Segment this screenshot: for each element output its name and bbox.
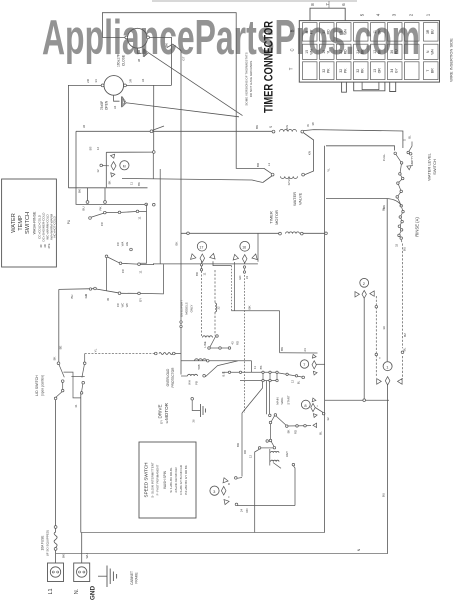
- svg-text:21: 21: [356, 50, 360, 54]
- svg-text:BU: BU: [70, 295, 74, 299]
- svg-text:RD: RD: [236, 341, 240, 345]
- svg-text:S/ 1+BK-BU RD-BL: S/ 1+BK-BU RD-BL: [169, 467, 173, 493]
- timer connector cell grid: [303, 23, 439, 80]
- TH2 terminal flag: [114, 95, 120, 101]
- svg-text:N.: N.: [74, 589, 80, 594]
- wire to water level switch common: [326, 146, 395, 151]
- svg-text:34: 34: [390, 69, 394, 73]
- svg-text:CLOSE: CLOSE: [122, 54, 126, 66]
- svg-text:BS: BS: [89, 147, 93, 151]
- svg-text:16: 16: [242, 245, 246, 249]
- wire left drop feed: [68, 187, 147, 189]
- connector cluster under circle 17: [191, 254, 197, 261]
- timer connector outer box: [299, 21, 439, 83]
- svg-text:12: 12: [291, 380, 295, 384]
- svg-text:36: 36: [82, 125, 86, 129]
- svg-text:S- SLOW INTERMITTENT: S- SLOW INTERMITTENT: [151, 462, 155, 498]
- wire N bus: [81, 532, 325, 534]
- svg-text:BK: BK: [382, 205, 386, 209]
- junction verticals: [262, 374, 264, 380]
- timer connector bottom tab right: [390, 82, 396, 91]
- svg-text:BK: BK: [175, 242, 179, 246]
- splice circle 16: [240, 241, 250, 251]
- wire B cold water feed: [271, 173, 274, 176]
- svg-text:BR: BR: [431, 68, 435, 73]
- svg-text:5: 5: [339, 31, 343, 33]
- svg-text:WF: WF: [125, 303, 129, 308]
- wire N plug stem: [81, 533, 83, 564]
- wire sol rail drop: [251, 361, 253, 373]
- svg-text:32: 32: [395, 244, 399, 248]
- fuse F1: [54, 526, 57, 529]
- wire diagonal to circled3 drop: [242, 381, 263, 413]
- svg-text:M: M: [123, 164, 126, 168]
- wire top page edge: [152, 0, 357, 2]
- svg-text:WH: WH: [431, 48, 435, 54]
- svg-text:32: 32: [356, 69, 360, 73]
- svg-text:BU: BU: [403, 247, 407, 251]
- timer connector bottom tab left: [342, 82, 347, 92]
- svg-text:TEMP: TEMP: [18, 215, 24, 231]
- junction row upper: [222, 371, 277, 373]
- svg-text:HG: HG: [125, 242, 129, 246]
- svg-text:2/S+DK GR RD GR: 2/S+DK GR RD GR: [174, 467, 178, 492]
- timer connector tab top tick: [328, 1, 330, 8]
- svg-text:32: 32: [322, 69, 326, 73]
- wire feeder 160: [159, 169, 161, 264]
- svg-text:BK: BK: [137, 182, 141, 186]
- lid switch pole 2: [82, 365, 85, 378]
- temp switch wafer 1: [89, 217, 92, 220]
- svg-text:BL: BL: [408, 135, 412, 139]
- svg-text:WH: WH: [188, 380, 192, 385]
- svg-text:OPEN: OPEN: [105, 100, 109, 110]
- svg-text:78±5F: 78±5F: [100, 101, 104, 110]
- lid switch pole1 lower: [62, 382, 64, 389]
- svg-text:RD: RD: [344, 49, 348, 54]
- svg-text:RD: RD: [245, 508, 249, 512]
- wire drop from cluster 16: [244, 262, 246, 413]
- svg-text:DO NOT HAVE GROUNDS: DO NOT HAVE GROUNDS: [249, 61, 253, 98]
- svg-text:GY: GY: [160, 420, 164, 424]
- svg-text:BR: BR: [195, 272, 199, 276]
- junction row lower: [240, 380, 277, 382]
- wire horizontal 310: [232, 310, 280, 312]
- wire TH2 left lead to left drop: [68, 85, 101, 187]
- svg-text:MAIN: MAIN: [275, 397, 279, 404]
- svg-text:39: 39: [382, 326, 386, 330]
- svg-text:BU: BU: [82, 206, 86, 210]
- svg-text:PB: PB: [195, 381, 199, 385]
- svg-text:CC: CC: [116, 242, 120, 246]
- svg-text:PR: PR: [310, 29, 314, 34]
- wire timer rail continues to junction: [303, 232, 325, 234]
- svg-text:CABINET: CABINET: [130, 571, 134, 585]
- svg-text:VALVE: VALVE: [298, 193, 303, 206]
- svg-text:YL: YL: [327, 50, 331, 54]
- svg-text:WATER LEVEL: WATER LEVEL: [427, 152, 432, 180]
- thermostat TH1 terminals: [125, 36, 128, 39]
- svg-text:WIRE INSERTION SIDE: WIRE INSERTION SIDE: [449, 38, 454, 82]
- cabinet ground symbol: [106, 566, 108, 588]
- svg-text:GY23: GY23: [287, 177, 291, 185]
- svg-text:WDG: WDG: [280, 397, 284, 405]
- svg-text:YL: YL: [94, 348, 98, 352]
- wire jog under cluster 17: [213, 261, 232, 265]
- motor protector coil: [181, 375, 188, 377]
- drop from wire A to wire B right end: [304, 133, 314, 175]
- svg-text:T: T: [378, 357, 382, 359]
- wire circled3 rail: [237, 505, 296, 507]
- svg-text:B: B: [290, 29, 295, 32]
- svg-text:WH: WH: [85, 554, 89, 559]
- svg-text:MODELS: MODELS: [185, 302, 189, 314]
- svg-text:BK: BK: [255, 125, 259, 129]
- wire TH2 right lead: [126, 84, 171, 86]
- svg-text:PU: PU: [67, 219, 71, 224]
- switch on wire A: [150, 130, 153, 133]
- svg-text:32: 32: [339, 69, 343, 73]
- svg-text:RD: RD: [294, 430, 298, 434]
- svg-text:34: 34: [94, 79, 98, 83]
- svg-text:C: C: [290, 48, 295, 51]
- tap hook to riser: [167, 44, 181, 50]
- svg-text:YL: YL: [327, 168, 331, 172]
- svg-text:34: 34: [113, 106, 117, 110]
- svg-text:PK: PK: [327, 68, 331, 73]
- wire circle8 to riser: [315, 408, 324, 414]
- svg-text:GT: GT: [182, 56, 186, 60]
- svg-text:12: 12: [96, 169, 100, 173]
- svg-text:WASH SPIN: WASH SPIN: [163, 470, 167, 488]
- circle 7 terminal: [302, 376, 305, 379]
- svg-text:F- FAST PERMANENT: F- FAST PERMANENT: [156, 464, 160, 495]
- svg-text:BZ: BZ: [403, 333, 407, 337]
- svg-text:30: 30: [322, 30, 326, 34]
- svg-text:GY: GY: [395, 68, 399, 74]
- wire fuse to L1 plug: [55, 550, 57, 563]
- circle 8 connector cluster: [311, 397, 316, 401]
- svg-text:BK: BK: [287, 430, 291, 434]
- splice circle 1: [383, 362, 392, 371]
- wire rinse feed arc: [387, 199, 401, 206]
- sol coil: [195, 359, 207, 361]
- thermostat TH2 terminals: [101, 84, 104, 87]
- wire water level to lower right: [401, 240, 402, 348]
- svg-text:22: 22: [339, 50, 343, 54]
- coil on export line: [215, 303, 217, 312]
- svg-text:17: 17: [199, 245, 203, 249]
- svg-text:KN: KN: [308, 151, 312, 155]
- svg-text:36: 36: [192, 419, 196, 423]
- svg-text:S: S: [403, 139, 407, 141]
- svg-text:CC: CC: [116, 303, 120, 307]
- wire drop at 258: [257, 233, 259, 261]
- svg-text:L1: L1: [267, 163, 271, 167]
- svg-text:PROTECTOR: PROTECTOR: [171, 367, 175, 388]
- wire drops to switch terminals: [87, 188, 89, 201]
- thermostat TH1 160F circle: [127, 28, 147, 48]
- svg-text:BK: BK: [62, 554, 66, 558]
- svg-text:WH: WH: [344, 28, 348, 34]
- wire double drop to motor contacts: [266, 381, 268, 414]
- svg-text:SOME VERSIONS OF THERMOSTATS: SOME VERSIONS OF THERMOSTATS: [245, 52, 249, 105]
- wire TH1 right lead to corner: [149, 37, 171, 85]
- speed switch legend box: [139, 442, 196, 518]
- svg-text:BS: BS: [259, 366, 263, 370]
- timer connector top tab: [310, 8, 345, 20]
- svg-text:BK: BK: [53, 357, 57, 361]
- riser inline connector pair: [180, 321, 182, 323]
- svg-text:PK: PK: [99, 206, 103, 210]
- wire riser to circled 1: [386, 199, 388, 362]
- svg-text:31: 31: [74, 404, 78, 408]
- wire circled3 riser: [241, 413, 243, 477]
- svg-text:160±17F: 160±17F: [117, 54, 121, 67]
- svg-text:36: 36: [390, 50, 394, 54]
- wire A to water level switch: [304, 130, 403, 148]
- svg-text:11: 11: [373, 30, 377, 34]
- circle splice M: [120, 161, 129, 170]
- connector diamond: [111, 162, 116, 171]
- connector upper flag: [111, 154, 116, 159]
- wire A continues: [153, 130, 272, 132]
- svg-text:7: 7: [426, 70, 430, 72]
- svg-text:ON EXPORT: ON EXPORT: [180, 300, 184, 317]
- svg-text:RINSE (A): RINSE (A): [415, 217, 420, 237]
- svg-text:9: 9: [305, 31, 309, 33]
- svg-text:F.S+BK GY BU RD GR: F.S+BK GY BU RD GR: [179, 465, 183, 495]
- wire timer motor rail: [181, 232, 279, 234]
- svg-text:13: 13: [373, 69, 377, 73]
- wire chain to aux row: [276, 416, 287, 426]
- wire harness top link: [106, 151, 152, 153]
- svg-text:BK: BK: [248, 305, 252, 309]
- TH1 terminal flag: [137, 48, 141, 53]
- splice circle 2: [360, 278, 369, 287]
- svg-text:OVERLOAD: OVERLOAD: [166, 368, 170, 386]
- wire L1 bus: [56, 553, 388, 555]
- leader diagonal to thermostat note upper: [148, 53, 242, 116]
- svg-text:LID SWITCH: LID SWITCH: [35, 375, 39, 396]
- svg-text:11: 11: [130, 182, 134, 185]
- svg-text:43: 43: [231, 341, 235, 345]
- wire L1 to fuse: [55, 400, 57, 526]
- svg-text:32: 32: [165, 420, 169, 424]
- svg-text:L1: L1: [48, 589, 54, 595]
- wire rinse top rail: [326, 198, 387, 200]
- svg-text:EMPTY: EMPTY: [410, 156, 414, 166]
- svg-text:24: 24: [303, 348, 307, 352]
- wire BK rail to circle7: [280, 352, 318, 354]
- temp switch terminals top: [86, 201, 89, 204]
- svg-text:FRAME: FRAME: [135, 572, 139, 583]
- svg-text:P/F+BR BU GY RD BK: P/F+BR BU GY RD BK: [184, 465, 188, 495]
- plug terminal N: [74, 563, 90, 582]
- solenoid coil cold valve: [281, 176, 298, 178]
- connector lower flag: [110, 173, 115, 178]
- circle 3 connector cluster: [222, 477, 229, 483]
- wire drop to BK rail: [279, 311, 281, 353]
- svg-text:ONLY: ONLY: [190, 305, 194, 313]
- svg-text:TIMER CONNECTOR: TIMER CONNECTOR: [264, 20, 276, 113]
- wire wafer outputs right: [140, 263, 153, 264]
- svg-text:TIMER: TIMER: [269, 211, 274, 224]
- svg-text:BK: BK: [165, 43, 169, 47]
- temp switch wafer 3: [59, 288, 94, 291]
- wire harness left drop: [105, 152, 107, 187]
- overload protector element: [155, 352, 158, 355]
- motor start switch blade: [273, 463, 281, 469]
- splice circle 17: [197, 242, 206, 251]
- aux row flag: [313, 423, 317, 427]
- svg-text:HC+HOT-COLD: HC+HOT-COLD: [53, 215, 57, 237]
- svg-text:GY: GY: [139, 298, 143, 302]
- wire drop from circle2 diamond: [363, 298, 365, 400]
- svg-text:PK: PK: [344, 68, 348, 73]
- svg-text:11: 11: [139, 270, 143, 273]
- svg-text:BU: BU: [382, 493, 386, 497]
- lid switch cross links: [64, 372, 81, 398]
- connector cluster under circle 16: [233, 254, 239, 261]
- svg-text:BR: BR: [236, 443, 240, 447]
- svg-text:SPEED SWITCH: SPEED SWITCH: [144, 463, 149, 498]
- solenoid coil L1W hot valve: [272, 130, 275, 133]
- svg-text:RD: RD: [243, 450, 247, 454]
- wire drop from cluster 17: [201, 261, 203, 271]
- svg-text:WA: WA: [121, 242, 125, 247]
- timer motor coil: [279, 232, 282, 235]
- svg-text:12: 12: [249, 455, 253, 459]
- svg-text:MOTOR: MOTOR: [274, 210, 279, 225]
- svg-text:33: 33: [245, 276, 249, 280]
- wire main riser 181: [180, 51, 182, 375]
- svg-text:RK: RK: [361, 68, 365, 73]
- temp switch wafer 2: [105, 255, 108, 258]
- svg-text:BE: BE: [59, 346, 63, 350]
- water level switch contact chain: [395, 153, 401, 163]
- svg-text:11: 11: [203, 272, 207, 275]
- svg-text:BL: BL: [319, 431, 323, 435]
- svg-text:BL: BL: [297, 380, 301, 384]
- motor winding stem: [269, 449, 271, 466]
- svg-text:BK: BK: [280, 347, 284, 351]
- svg-text:3R: 3R: [426, 29, 430, 34]
- svg-text:11: 11: [138, 216, 142, 219]
- wire lid switch feed from temp switch: [58, 289, 60, 362]
- motor winding row: [260, 447, 274, 449]
- wire sol rail: [181, 360, 252, 362]
- svg-text:SWITCH: SWITCH: [25, 212, 31, 234]
- wire start to circled3 rail: [293, 466, 295, 506]
- wire wafer2 drop: [106, 258, 108, 291]
- svg-text:RD: RD: [327, 29, 331, 34]
- line filter coil: [203, 336, 213, 338]
- svg-text:BK: BK: [378, 49, 382, 54]
- svg-text:10A FUSE: 10A FUSE: [41, 536, 45, 551]
- svg-text:ED: ED: [238, 276, 242, 280]
- splice circle 7: [300, 360, 308, 368]
- circle 7 connector cluster: [311, 354, 316, 358]
- svg-text:(IF SO EQUIPPED): (IF SO EQUIPPED): [46, 530, 50, 556]
- svg-text:BL: BL: [403, 347, 407, 351]
- svg-text:T: T: [289, 67, 294, 70]
- svg-text:+: +: [315, 405, 319, 407]
- wire N bus riser right: [324, 146, 326, 533]
- connector terminal: [100, 164, 103, 167]
- svg-text:38: 38: [311, 122, 315, 126]
- wire drop from circle1 to L1 bus: [387, 384, 389, 554]
- motor aux row: [287, 425, 311, 427]
- svg-text:DRIVE: DRIVE: [158, 404, 163, 418]
- svg-text:16: 16: [322, 50, 326, 54]
- svg-text:WC: WC: [121, 303, 125, 308]
- tap continues to harness wire: [152, 153, 154, 178]
- svg-text:(open position): (open position): [41, 375, 45, 396]
- circle 3 terminals: [235, 477, 238, 480]
- svg-text:BK: BK: [78, 189, 82, 193]
- wire junction to circle7 terminal: [278, 373, 302, 377]
- svg-text:WH: WH: [310, 48, 314, 54]
- svg-text:4TE: 4TE: [47, 243, 51, 248]
- svg-text:PU: PU: [395, 49, 399, 54]
- svg-text:GND: GND: [90, 586, 97, 600]
- svg-text:LINE: LINE: [203, 341, 207, 347]
- svg-text:BR: BR: [361, 49, 365, 54]
- splice circle 8: [301, 400, 310, 409]
- svg-text:OR: OR: [378, 29, 382, 35]
- junction rail 400: [325, 399, 389, 401]
- water temp switch legend box: [2, 179, 57, 267]
- svg-text:SWITCH: SWITCH: [432, 159, 437, 175]
- tap from TH2 line down to wire A switch: [153, 85, 155, 150]
- splice circle 3: [210, 486, 219, 495]
- wire top rail from thermostat circuit to node B: [102, 13, 272, 175]
- svg-text:BU: BU: [431, 29, 435, 34]
- circle 2 connector cluster: [355, 292, 359, 297]
- svg-text:24: 24: [240, 509, 244, 513]
- svg-text:MOTOR: MOTOR: [164, 402, 169, 420]
- water level switch pivot triangle: [406, 164, 411, 170]
- svg-text:AppliancePartsPros.com: AppliancePartsPros.com: [42, 11, 420, 65]
- motor contact chain: [271, 416, 274, 422]
- svg-text:15: 15: [305, 50, 309, 54]
- svg-text:32: 32: [326, 417, 330, 421]
- svg-text:B: B: [227, 483, 231, 485]
- wire harness lower link to riser: [122, 179, 263, 183]
- wire lid to overload rail: [85, 353, 155, 355]
- wire circle7 diamond to riser: [316, 363, 324, 365]
- lid switch pole 2 rail: [85, 354, 155, 364]
- svg-text:WATER: WATER: [11, 213, 17, 233]
- wire motor left drop to N bus: [255, 449, 260, 532]
- circle 1 connector cluster: [377, 379, 382, 385]
- line filter contacts: [208, 347, 211, 350]
- svg-text:W: W: [106, 298, 110, 301]
- wire A hot water feed: [76, 130, 150, 132]
- svg-text:50B: 50B: [197, 364, 201, 369]
- leader diagonal to thermostat note lower: [126, 103, 239, 117]
- wire protector blade to rail: [206, 361, 238, 377]
- upper chain stub to connector side: [408, 142, 412, 153]
- svg-text:12: 12: [373, 50, 377, 54]
- svg-text:32: 32: [217, 306, 221, 310]
- timer connector bottom bracket: [354, 82, 385, 91]
- temp switch right feeders: [139, 210, 147, 212]
- lid switch pole 1: [57, 362, 60, 365]
- svg-text:START: START: [287, 395, 291, 404]
- svg-text:38: 38: [137, 59, 141, 63]
